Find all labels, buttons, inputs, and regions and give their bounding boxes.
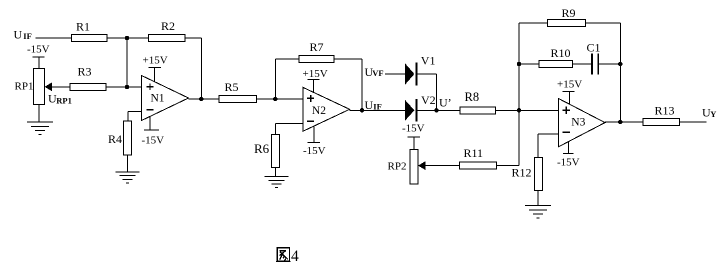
label U_Y output	[702, 106, 716, 120]
svg-text:V2: V2	[421, 93, 436, 107]
wire RP1 bottom to ground	[38, 104, 40, 122]
svg-text:R9: R9	[562, 6, 576, 20]
svg-text:U: U	[365, 98, 374, 112]
svg-text:R13: R13	[655, 104, 675, 118]
svg-text:IF: IF	[23, 31, 32, 41]
wire V2 to R8	[417, 109, 460, 111]
resistor R5	[219, 80, 256, 102]
wire R8 to N3 plus input	[495, 109, 558, 111]
svg-text:R1: R1	[76, 19, 90, 33]
resistor R3	[70, 65, 106, 91]
svg-text:R11: R11	[464, 146, 484, 160]
resistor R12	[512, 157, 543, 190]
wire R1 to R2	[107, 37, 149, 39]
svg-text:RP1: RP1	[56, 95, 72, 105]
power +15V for N1	[143, 55, 168, 83]
wire N2 output to V2	[350, 109, 406, 111]
svg-text:R7: R7	[310, 40, 324, 54]
power +15V for N3	[557, 79, 582, 105]
node junction N2 input feedback tap	[273, 97, 277, 101]
svg-text:V1: V1	[421, 54, 436, 68]
svg-text:+15V: +15V	[303, 68, 328, 80]
wire R10 branch left	[519, 63, 539, 65]
node U'	[434, 108, 438, 112]
svg-text:+15V: +15V	[557, 79, 582, 91]
wire top feedback to R9	[519, 22, 548, 24]
resistor R4	[108, 121, 132, 155]
resistor R9	[548, 6, 586, 26]
svg-text:R4: R4	[108, 132, 122, 146]
power -15V for N2	[303, 126, 326, 157]
label U_IF at N2 output	[365, 98, 382, 112]
svg-text:N1: N1	[151, 92, 165, 104]
svg-text:-15V: -15V	[557, 157, 580, 169]
power -15V for RP2	[402, 123, 425, 150]
wire U_VF to V1	[385, 73, 405, 75]
wire R3 to N1 plus input	[106, 86, 142, 88]
op-amp N3	[558, 98, 605, 146]
wire N2 minus input to R6	[276, 123, 303, 134]
wire N3 output to R13	[605, 121, 643, 123]
svg-text:N3: N3	[571, 117, 585, 129]
svg-text:RP2: RP2	[388, 161, 407, 173]
ground below RP1	[27, 122, 53, 134]
node junction C1 right	[618, 62, 622, 66]
wire R11 to vertical feedback line	[497, 23, 519, 166]
wire V1 to U' node	[417, 74, 437, 110]
resistor R2	[149, 19, 186, 41]
potentiometer RP1	[15, 69, 45, 105]
wire N1 output to R5	[189, 98, 220, 100]
wire R5 to N2 plus input	[256, 98, 303, 100]
wire R6 to ground	[275, 168, 277, 177]
op-amp N1	[142, 76, 189, 121]
resistor R13	[643, 104, 679, 126]
wire wiper RP2 to R11	[425, 165, 460, 167]
power -15V for N3	[557, 141, 580, 168]
ground below R12	[525, 206, 551, 218]
svg-text:R12: R12	[512, 166, 532, 180]
diode V1	[405, 54, 435, 86]
wiper arrow RP2	[418, 161, 425, 170]
wire R2 to corner	[185, 37, 201, 39]
wire R7 to output vertical	[334, 59, 362, 110]
svg-text:R3: R3	[78, 65, 92, 79]
node N2 output junction	[360, 108, 364, 112]
wire R13 to output terminal	[680, 121, 707, 123]
capacitor C1	[587, 41, 601, 75]
svg-text:-15V: -15V	[142, 134, 165, 146]
resistor R8	[460, 90, 495, 114]
node junction R2 feedback at N1 output	[199, 97, 203, 101]
svg-text:R2: R2	[161, 19, 175, 33]
wire feedback up from N2 input	[275, 59, 299, 99]
svg-text:R6: R6	[254, 141, 270, 156]
wire wiper to R3	[51, 86, 70, 88]
op-amp N2	[303, 87, 350, 131]
svg-text:R10: R10	[551, 46, 571, 60]
potentiometer RP2	[388, 149, 418, 184]
wire N1 minus input to R4	[128, 111, 142, 121]
svg-text:4: 4	[291, 248, 299, 265]
ground below R4	[116, 172, 140, 183]
label U_RP1	[48, 91, 72, 105]
node junction R3 line	[125, 85, 129, 89]
resistor R7	[299, 40, 334, 62]
diode V2	[405, 93, 436, 122]
node junction R10 tap left	[517, 62, 521, 66]
resistor R11	[460, 146, 497, 169]
label U_IF input	[14, 28, 32, 42]
wiper arrow RP1	[45, 83, 52, 92]
wire junction down to R3 line	[126, 38, 128, 87]
wire R10 to C1	[573, 63, 592, 65]
svg-text:IF: IF	[373, 101, 382, 111]
resistor R1	[72, 19, 108, 41]
svg-text:RP1: RP1	[15, 80, 34, 92]
svg-text:-15V: -15V	[402, 123, 425, 135]
svg-text:-15V: -15V	[303, 145, 326, 157]
wire corner down to N1 output	[200, 38, 202, 99]
svg-text:C1: C1	[587, 41, 601, 55]
svg-text:R5: R5	[225, 80, 239, 94]
node N3 output junction	[618, 120, 622, 124]
wire R12 to ground	[537, 190, 539, 205]
svg-text:Y: Y	[710, 109, 716, 119]
node junction R1-R2	[125, 36, 129, 40]
wire R9 to right vertical	[585, 23, 620, 122]
power +15V for N2	[303, 68, 328, 93]
svg-text:+15V: +15V	[143, 55, 168, 67]
resistor R6	[254, 135, 280, 168]
wire C1 to right vertical	[598, 63, 620, 65]
wire input to R1	[36, 37, 72, 39]
power -15V for N1	[142, 116, 165, 146]
label U_VF	[365, 65, 384, 79]
svg-text:R8: R8	[465, 90, 480, 104]
svg-text:VF: VF	[372, 68, 383, 78]
svg-text:N2: N2	[312, 105, 326, 117]
node junction R8 line and left feedback vertical	[517, 108, 521, 112]
label U'	[439, 95, 452, 109]
svg-text:U’: U’	[439, 95, 452, 109]
resistor R10	[539, 46, 573, 67]
power -15V for RP1	[27, 43, 50, 68]
wire R4 to ground	[127, 155, 129, 172]
wire N3 minus input to R12	[538, 134, 558, 157]
svg-text:-15V: -15V	[27, 43, 50, 55]
svg-text:U: U	[14, 28, 23, 42]
ground below R6	[265, 177, 289, 188]
caption 图4	[276, 248, 299, 265]
